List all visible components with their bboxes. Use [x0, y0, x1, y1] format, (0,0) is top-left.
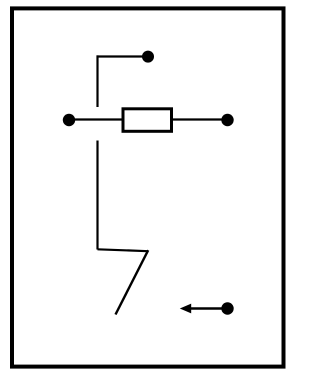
- terminal node (lower right): [221, 302, 233, 314]
- terminal node (right): [221, 114, 233, 126]
- wire: vertical segment (upper, from corner down to crossover gap): [96, 55, 98, 107]
- wire: vertical segment (lower, below crossover gap down to switch): [96, 141, 98, 250]
- terminal node (upper): [142, 51, 154, 63]
- switch blade (open contact, diagonal stroke): [116, 250, 149, 314]
- terminal node (left): [63, 114, 75, 126]
- arrowhead (pointing left): [180, 304, 191, 314]
- wire: arrow shaft from lower-right terminal: [189, 307, 228, 309]
- wire: switch fixed lead (near-horizontal): [98, 249, 149, 251]
- resistor (rectangular IEC symbol): [123, 109, 172, 132]
- wire: left lead of resistor: [69, 118, 123, 120]
- wire: right lead of resistor: [172, 118, 228, 120]
- wire: top horizontal lead to upper terminal: [97, 55, 146, 57]
